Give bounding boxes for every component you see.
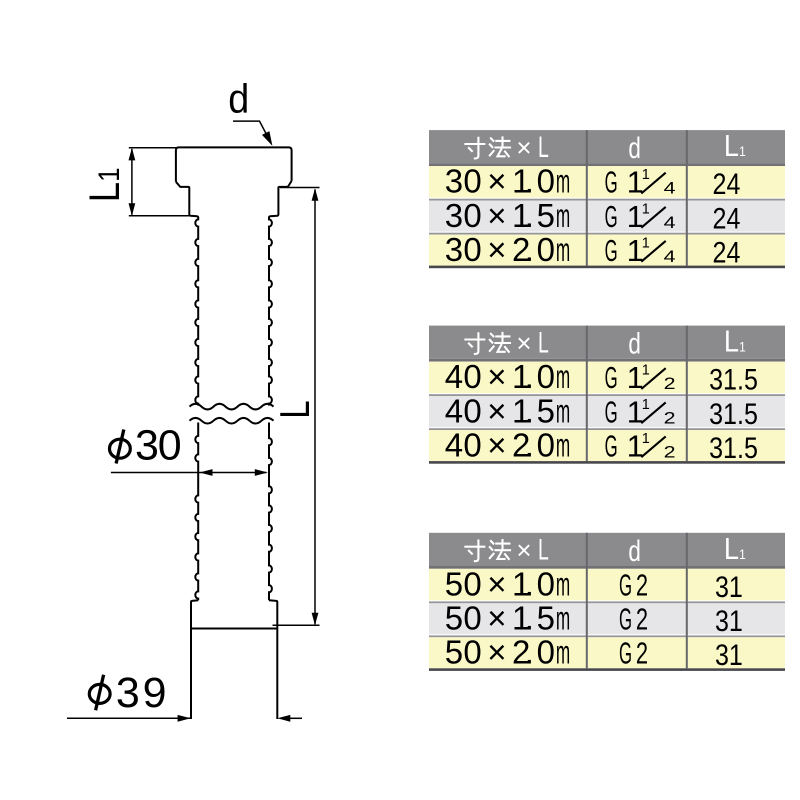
table 3 (50mm) header kanji sunpou (寸法) [465, 541, 484, 562]
label L (rotated) [271, 400, 318, 418]
svg-text:2: 2 [636, 568, 648, 602]
table 3 (50mm) data row 1 background [429, 569, 785, 601]
svg-text:×: × [516, 328, 531, 358]
svg-text:1: 1 [642, 397, 650, 413]
svg-text:L: L [538, 131, 549, 164]
svg-text:30×1.0: 30×1.0 [445, 163, 555, 200]
label d arrowhead [262, 131, 272, 146]
L dimension line [314, 190, 316, 625]
svg-text:31.5: 31.5 [709, 363, 758, 396]
table 2 (40mm) row 2 thread size G12 [605, 396, 618, 429]
L1 extension line bottom [129, 215, 189, 217]
svg-text:31.5: 31.5 [709, 397, 758, 430]
svg-text:L: L [538, 534, 549, 567]
table 2 (40mm) header L1 [724, 325, 746, 359]
svg-text:24: 24 [713, 201, 741, 234]
table 2 (40mm) data row 3 background [429, 430, 785, 461]
table 1 (30mm) header kanji sunpou (寸法) [465, 138, 484, 159]
table 1 (30mm) header L1 [724, 130, 746, 164]
svg-text:×: × [516, 535, 531, 565]
label d leader line [233, 121, 269, 138]
collar bottom divider line [191, 628, 277, 630]
table 1 (30mm) bottom border [429, 266, 785, 269]
svg-text:G: G [605, 396, 618, 429]
label phi30 greek phi symbol [110, 439, 131, 458]
corrugated hose right wall (lower section) [269, 423, 272, 601]
svg-text:m: m [556, 565, 570, 603]
table 2 (40mm) row 2 L1 value 31.5 [709, 397, 758, 430]
svg-text:2: 2 [664, 444, 676, 462]
phi30 left arrowhead [200, 469, 213, 476]
table 3 (50mm) row 3 thread size G2 [619, 638, 632, 671]
table 2 (40mm) data row 2 background [429, 396, 785, 427]
svg-text:4: 4 [664, 214, 676, 232]
svg-text:39: 39 [116, 669, 167, 717]
svg-text:31: 31 [715, 604, 743, 637]
table 1 (30mm) row 1 L1 value 24 [713, 167, 741, 200]
svg-text:40×1.0: 40×1.0 [445, 358, 555, 395]
bottom collar step right [269, 600, 277, 719]
cap left chamfer and neck left shoulder [176, 182, 198, 218]
table 3 (50mm) header bottom border [429, 566, 785, 569]
L1 extension line top [129, 147, 177, 149]
table 1 (30mm) row 3 L1 value 24 [713, 235, 741, 268]
svg-text:1: 1 [642, 235, 650, 251]
svg-text:1: 1 [642, 201, 650, 217]
pipe top cap (hose nut) [176, 147, 292, 181]
table 3 (50mm) column separator 1 [586, 533, 588, 669]
svg-text:50×1.5: 50×1.5 [445, 600, 555, 637]
L1 dimension line [131, 149, 133, 215]
table 2 (40mm) row 1 thread size G12 [605, 362, 618, 395]
L1 bottom arrowhead [129, 203, 136, 216]
svg-text:4: 4 [664, 248, 676, 266]
svg-text:L: L [538, 327, 549, 360]
break line upper wave [190, 404, 274, 410]
table 3 (50mm) row 1 thread size G2 [619, 569, 632, 602]
table 2 (40mm) data row 1 background [429, 362, 785, 394]
table 3 (50mm) header L [538, 534, 549, 567]
svg-text:4: 4 [664, 180, 676, 198]
svg-text:G: G [619, 569, 632, 602]
corrugated hose right wall (upper section) [269, 217, 272, 406]
svg-text:m: m [556, 599, 570, 637]
L top arrowhead [312, 188, 319, 201]
phi30 right arrowhead [255, 469, 268, 476]
table 3 (50mm) data row 3 background [429, 637, 785, 668]
svg-text:G: G [619, 604, 632, 637]
svg-text:L1: L1 [81, 168, 128, 203]
svg-text:m: m [556, 231, 570, 269]
table 2 (40mm) column separator 1 [586, 326, 588, 462]
break line lower wave [190, 418, 274, 424]
table 1 (30mm) header row background [429, 130, 785, 163]
table 3 (50mm) row 2 L1 value 31 [715, 604, 743, 637]
svg-text:1: 1 [642, 363, 650, 379]
table 1 (30mm) row 2 thread size G14 [605, 201, 618, 234]
table 1 (30mm) row separator 1 [429, 199, 785, 201]
table 3 (50mm) bottom border [429, 668, 785, 671]
table 2 (40mm) header bottom border [429, 359, 785, 362]
svg-text:m: m [556, 426, 570, 464]
table 2 (40mm) row separator 1 [429, 394, 785, 396]
phi39 dimension line left part [67, 717, 190, 719]
table 2 (40mm) row 3 L1 value 31.5 [709, 431, 758, 464]
table 1 (30mm) header L [538, 131, 549, 164]
svg-text:G: G [619, 638, 632, 671]
table 3 (50mm) data row 2 background [429, 603, 785, 634]
table 1 (30mm) data row 2 background [429, 201, 785, 232]
svg-text:31: 31 [715, 638, 743, 671]
L extension line top [280, 187, 320, 189]
svg-text:24: 24 [713, 167, 741, 200]
svg-text:2: 2 [664, 375, 676, 393]
table 2 (40mm) row separator 2 [429, 428, 785, 430]
table 3 (50mm) header L1 [724, 532, 746, 566]
svg-text:m: m [556, 633, 570, 671]
svg-text:30×1.5: 30×1.5 [445, 197, 555, 234]
svg-text:40×2.0: 40×2.0 [445, 426, 555, 463]
svg-text:×: × [516, 132, 531, 162]
table 2 (40mm) row 1 L1 value 31.5 [709, 363, 758, 396]
table 3 (50mm) row 3 L1 value 31 [715, 638, 743, 671]
svg-text:G: G [605, 201, 618, 234]
phi39 left arrowhead [178, 715, 191, 722]
L1 top arrowhead [129, 148, 136, 161]
table 1 (30mm) header d [628, 131, 641, 165]
corrugated hose left wall (upper section) [195, 217, 198, 406]
L extension line bottom [273, 624, 320, 626]
table 2 (40mm) row 3 thread size G12 [605, 430, 618, 463]
table 2 (40mm) header row background [429, 326, 785, 359]
svg-text:G: G [605, 235, 618, 268]
table 3 (50mm) row 1 L1 value 31 [715, 570, 743, 603]
svg-text:1: 1 [642, 167, 650, 183]
svg-text:d: d [628, 326, 641, 360]
svg-text:m: m [556, 358, 570, 396]
svg-text:d: d [628, 131, 641, 165]
table 3 (50mm) row 2 thread size G2 [619, 604, 632, 637]
table 1 (30mm) column separator 1 [586, 130, 588, 266]
svg-text:40×1.5: 40×1.5 [445, 392, 555, 429]
table 1 (30mm) row 3 thread size G14 [605, 235, 618, 268]
corrugated hose left wall (lower section) [195, 423, 198, 601]
svg-text:50×1.0: 50×1.0 [445, 565, 555, 602]
table 2 (40mm) header kanji sunpou (寸法) [465, 333, 484, 354]
phi30 dimension line [111, 472, 267, 474]
svg-text:31: 31 [715, 570, 743, 603]
table 1 (30mm) row separator 2 [429, 233, 785, 235]
svg-text:G: G [605, 430, 618, 463]
label L1 (rotated) [81, 168, 128, 203]
phi39 dimension line right tail [290, 717, 303, 719]
svg-text:1: 1 [642, 431, 650, 447]
label phi39 greek phi symbol [89, 684, 110, 703]
svg-text:G: G [605, 167, 618, 200]
svg-text:31.5: 31.5 [709, 431, 758, 464]
svg-text:m: m [556, 197, 570, 235]
svg-text:30: 30 [135, 421, 182, 469]
bottom collar step left [191, 600, 198, 719]
table 1 (30mm) data row 1 background [429, 166, 785, 198]
table 3 (50mm) header d [628, 534, 641, 568]
table 1 (30mm) row 1 thread size G14 [605, 167, 618, 200]
L bottom arrowhead [312, 613, 319, 626]
table 2 (40mm) header L [538, 327, 549, 360]
svg-text:G: G [605, 362, 618, 395]
table 3 (50mm) header row background [429, 533, 785, 566]
table 3 (50mm) row separator 2 [429, 635, 785, 637]
table 2 (40mm) column separator 2 [686, 326, 688, 462]
svg-text:m: m [556, 392, 570, 430]
svg-text:d: d [228, 76, 249, 122]
table 1 (30mm) column separator 2 [686, 130, 688, 266]
table 2 (40mm) header d [628, 326, 641, 360]
svg-text:L: L [271, 400, 318, 418]
table 1 (30mm) row 2 L1 value 24 [713, 201, 741, 234]
phi39 right arrowhead [277, 715, 290, 722]
cap right chamfer and neck right shoulder [269, 181, 292, 218]
svg-text:2: 2 [664, 410, 676, 428]
svg-text:50×2.0: 50×2.0 [445, 634, 555, 671]
svg-text:2: 2 [636, 636, 648, 670]
svg-text:m: m [556, 163, 570, 201]
svg-text:2: 2 [636, 602, 648, 636]
table 1 (30mm) header bottom border [429, 163, 785, 166]
table 3 (50mm) row separator 1 [429, 601, 785, 603]
table 3 (50mm) column separator 2 [686, 533, 688, 669]
svg-text:30×2.0: 30×2.0 [445, 231, 555, 268]
table 1 (30mm) data row 3 background [429, 235, 785, 266]
svg-text:d: d [628, 534, 641, 568]
svg-text:24: 24 [713, 235, 741, 268]
table 2 (40mm) bottom border [429, 461, 785, 464]
